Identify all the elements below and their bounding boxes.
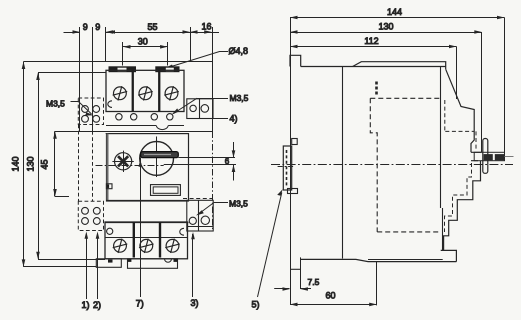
dim 55 xyxy=(108,30,191,34)
dim 9-9 right arrow xyxy=(106,30,121,34)
handle shaft neck xyxy=(471,152,481,160)
svg-text:55: 55 xyxy=(147,22,157,32)
dim 60 xyxy=(290,303,377,307)
lower terminal block xyxy=(105,222,188,259)
svg-text:30: 30 xyxy=(138,36,148,46)
top reference line y=61.5 xyxy=(24,61,213,63)
dim 9-9 left arrow xyxy=(64,30,81,34)
dim 140 bottom extension xyxy=(24,266,97,268)
side view centerline xyxy=(271,164,513,166)
aux contact block upper-left (phantom) xyxy=(78,98,103,125)
dim 144 right extension xyxy=(504,18,506,153)
wire entry circles row xyxy=(116,114,173,120)
phantom aux block on side (dashed outline) xyxy=(370,98,440,232)
dim 130 bottom extension xyxy=(38,259,105,261)
svg-text:2): 2) xyxy=(93,300,101,310)
center foot xyxy=(128,259,178,269)
dim 9-9 extension lines xyxy=(80,27,106,131)
terminal screw L1 xyxy=(113,86,128,100)
mounting tab left xyxy=(109,66,137,72)
svg-text:130: 130 xyxy=(26,156,36,171)
leader 3) xyxy=(191,232,195,297)
vertical line below handle + leader 7) xyxy=(139,158,143,297)
dashed line right of body y=198.7 xyxy=(183,198,213,200)
DIN rail clip bottom hook xyxy=(288,189,298,194)
terminal screw T2 xyxy=(139,239,154,253)
dim 30 xyxy=(123,42,168,66)
upper terminal divider bar 2 xyxy=(158,70,160,111)
svg-text:3): 3) xyxy=(191,298,199,308)
horizontal centerline front view xyxy=(96,165,164,167)
leader 5) xyxy=(258,189,283,297)
bottom right step xyxy=(441,250,457,261)
adjustment screw (phillips) xyxy=(112,151,133,172)
terminal screw L2 xyxy=(138,86,153,100)
dim 130 vertical xyxy=(36,73,40,260)
top face line xyxy=(301,66,446,68)
section line y=133.6 xyxy=(106,133,186,135)
svg-text:9: 9 xyxy=(95,22,100,32)
lower terminal divider bar 2 xyxy=(159,222,161,258)
foot mark 2 xyxy=(128,259,132,262)
right edge lower segment xyxy=(442,208,444,250)
phantom knob mark on dashed block xyxy=(375,82,378,96)
phantom vertical between left aux blocks 1 xyxy=(78,125,80,202)
svg-text:M3,5: M3,5 xyxy=(229,198,248,208)
terminal screw L3 xyxy=(164,86,179,100)
shaft tip line xyxy=(505,156,514,158)
aux block upper-right xyxy=(187,99,213,119)
phantom handle profile lower (dashed) xyxy=(445,163,472,232)
handle profile upper (solid) xyxy=(446,69,475,152)
mounting tab right xyxy=(155,66,179,72)
hook circle right xyxy=(180,228,184,235)
bar bottom projection line xyxy=(178,157,235,159)
aux block lower-left terminal circles xyxy=(82,207,101,224)
knob handle bar xyxy=(141,152,179,158)
clip centerline tick xyxy=(278,166,295,168)
dim 130 right extension xyxy=(481,32,483,152)
label window xyxy=(151,185,181,196)
svg-text:6: 6 xyxy=(225,157,230,166)
svg-text:140: 140 xyxy=(11,156,21,171)
panel plate through which shaft passes xyxy=(483,139,488,174)
small test button square xyxy=(106,184,112,189)
mid body outline xyxy=(107,134,189,201)
aux contact block lower-left (phantom) xyxy=(78,201,103,230)
svg-text:144: 144 xyxy=(387,7,402,17)
dim 60 right extension xyxy=(376,262,378,305)
bezel parting line xyxy=(342,67,344,259)
svg-text:4): 4) xyxy=(230,114,238,124)
leader 1) xyxy=(85,232,89,300)
svg-text:45: 45 xyxy=(40,159,50,169)
svg-text:9: 9 xyxy=(83,22,88,32)
svg-text:112: 112 xyxy=(364,36,378,46)
left foot xyxy=(96,259,121,268)
dim 140 vertical xyxy=(22,62,26,267)
body rear-front parting line xyxy=(440,67,442,209)
svg-text:1): 1) xyxy=(82,300,90,310)
bottom face lines xyxy=(300,259,456,261)
dim 144 xyxy=(290,16,505,20)
phantom vertical between left aux blocks 2 xyxy=(92,131,94,201)
label M3,5 upper-right + leader xyxy=(172,93,249,115)
body section line y=201 xyxy=(107,200,189,202)
section line y=131.3 xyxy=(55,131,213,133)
lower terminal divider bar 1 xyxy=(133,222,135,258)
rotary knob circle xyxy=(140,137,174,178)
handle shaft with knurl xyxy=(474,152,504,160)
svg-text:130: 130 xyxy=(378,22,393,32)
svg-text:5): 5) xyxy=(252,300,260,310)
dim 112 xyxy=(290,45,457,49)
sub-block bottom line with notch xyxy=(106,126,184,130)
label 4) + leader xyxy=(214,114,238,124)
upper terminal block xyxy=(106,70,184,111)
bottom left step (7.5 offset) xyxy=(290,268,300,270)
svg-text:M3,5: M3,5 xyxy=(46,98,65,108)
side view left edge / extension line xyxy=(290,18,292,306)
lower section top line y=222 xyxy=(105,222,189,224)
right extension/edge line x=212.5 xyxy=(212,27,214,229)
left hook on body edge xyxy=(108,101,112,108)
foot mark 3 xyxy=(174,259,178,262)
svg-text:16: 16 xyxy=(201,22,211,32)
upper terminal divider bar 1 xyxy=(132,70,134,111)
dim 6 arrows xyxy=(232,142,236,181)
7.5 extension line xyxy=(300,257,302,289)
svg-text:M3,5: M3,5 xyxy=(230,93,249,103)
dim 130 top extension xyxy=(38,72,106,74)
dim 45 vertical xyxy=(53,131,69,196)
aux block upper-left terminal circles xyxy=(82,106,100,123)
svg-text:7.5: 7.5 xyxy=(308,277,320,287)
centerline solid segment right xyxy=(164,164,236,166)
terminal screw T3 xyxy=(165,239,180,253)
terminal screw T1 xyxy=(113,239,128,253)
hook circle left xyxy=(107,228,113,234)
DIN rail clip body xyxy=(283,146,291,190)
svg-text:Ø4,8: Ø4,8 xyxy=(229,46,249,56)
label M3,5 upper-left + leader xyxy=(46,98,94,115)
label M3,5 lower-right + leader xyxy=(196,198,248,215)
dim 7.5 xyxy=(274,287,311,291)
dim 130 (side) xyxy=(290,30,482,34)
dim 16 xyxy=(190,27,219,62)
handle profile lower (solid) xyxy=(444,161,481,251)
top raised plateau xyxy=(353,62,446,70)
svg-text:7): 7) xyxy=(136,299,144,309)
phantom handle profile upper (dashed) xyxy=(445,100,476,150)
DIN rail clip spring (dashed) xyxy=(286,150,288,186)
dim 112 right extension xyxy=(456,47,458,100)
aux block lower-right xyxy=(187,200,213,231)
top rear tab xyxy=(290,55,301,66)
leader 2) xyxy=(96,232,100,300)
svg-text:60: 60 xyxy=(325,291,335,301)
label dia 4,8 + leader xyxy=(164,46,248,69)
DIN rail clip top tab xyxy=(292,139,298,145)
